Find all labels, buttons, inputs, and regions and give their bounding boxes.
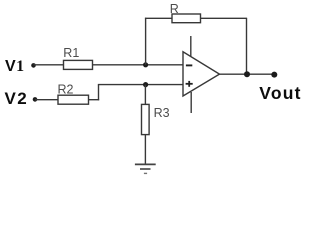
junction node A (inverting input / feedback tap) — [143, 62, 148, 67]
wire R1 to op-amp inverting input — [93, 64, 184, 66]
wire R2 output to corner — [89, 99, 100, 101]
resistor R3 — [142, 104, 150, 134]
svg-text:V1: V1 — [5, 58, 24, 75]
svg-text:R1: R1 — [63, 46, 79, 60]
op-amp positive supply pin — [190, 36, 192, 58]
op-amp U1 triangle body — [183, 52, 220, 96]
wire corner up to non-inverting rail — [98, 85, 100, 101]
junction node B (non-inverting input / R3 tap) — [143, 82, 148, 87]
wire feedback down to output node — [246, 18, 248, 74]
svg-text:V2: V2 — [5, 89, 27, 108]
op-amp inverting input minus sign — [186, 64, 192, 66]
svg-text:R2: R2 — [58, 83, 74, 97]
wire node A up to feedback rail — [145, 18, 147, 65]
node V2 input terminal — [33, 97, 38, 102]
svg-text:R: R — [170, 2, 179, 16]
wire feedback rail right segment — [201, 17, 248, 19]
op-amp non-inverting input plus sign — [186, 81, 193, 87]
wire R3 to ground — [144, 135, 146, 165]
resistor R1 — [64, 60, 93, 69]
wire V1 terminal to R1 — [34, 64, 65, 66]
wire node B down to R3 — [144, 85, 146, 105]
ground symbol — [135, 164, 156, 173]
junction node C (output / feedback) — [244, 71, 250, 77]
resistor R2 — [58, 95, 89, 104]
op-amp negative supply pin — [190, 92, 192, 113]
wire feedback rail left segment — [145, 17, 173, 19]
wire V2 terminal to R2 — [35, 99, 59, 101]
wire op-amp output — [220, 73, 275, 75]
svg-text:Vout: Vout — [259, 83, 301, 103]
node V1 input terminal — [31, 63, 36, 68]
node Vout terminal — [271, 72, 277, 78]
svg-text:R3: R3 — [154, 106, 170, 120]
resistor R (feedback) — [172, 14, 201, 23]
wire non-inverting rail to op-amp — [98, 84, 184, 86]
